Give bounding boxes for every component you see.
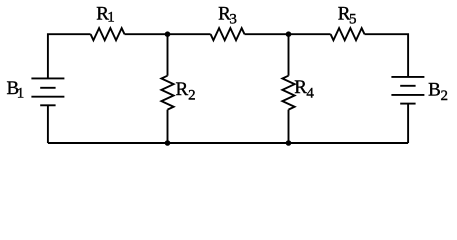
resistor R3 <box>211 28 245 40</box>
resistor R2 <box>161 76 173 110</box>
label R3 <box>218 3 237 27</box>
svg-text:1: 1 <box>17 86 25 102</box>
wire: node B down to R4 <box>288 34 290 75</box>
wire: left rail top (B1 + terminal up to top-left corner, across to R1) <box>48 34 91 78</box>
junction node A (top, R1/R2/R3) <box>165 31 171 37</box>
label R4 <box>294 77 314 101</box>
svg-text:B: B <box>428 80 441 101</box>
label B1 <box>7 78 25 102</box>
resistor R4 <box>282 76 294 110</box>
label R5 <box>338 3 357 27</box>
svg-text:R: R <box>294 77 307 98</box>
svg-text:2: 2 <box>188 88 196 104</box>
resistor R1 <box>91 28 125 40</box>
wire: R4 down to bottom rail node D <box>288 110 290 143</box>
wire: B2 - terminal down to bottom-right corner <box>407 104 409 143</box>
label R1 <box>96 3 115 25</box>
junction node C (bottom, under R2) <box>165 140 171 146</box>
junction node D (bottom, under R4) <box>286 140 292 146</box>
wire: B1 - terminal down to bottom-left corner <box>47 105 49 143</box>
svg-text:R: R <box>176 79 189 100</box>
wire: R5 to top-right corner down to B2 + terminal <box>365 34 409 77</box>
battery B2 <box>391 77 424 104</box>
wire: bottom rail left section <box>48 142 168 144</box>
label R2 <box>176 79 196 104</box>
wire: bottom rail right section <box>289 142 409 144</box>
svg-text:5: 5 <box>349 12 357 28</box>
svg-text:4: 4 <box>306 86 314 102</box>
svg-text:1: 1 <box>107 9 115 25</box>
wire: bottom rail middle section <box>168 142 289 144</box>
junction node B (top, R3/R4/R5) <box>286 31 292 37</box>
battery B1 <box>31 78 64 105</box>
label B2 <box>428 80 448 105</box>
wire: R3 to R5 through node B <box>245 33 331 35</box>
resistor R5 <box>331 28 365 40</box>
wire: node A down to R2 <box>167 34 169 75</box>
wire: R2 down to bottom rail node C <box>167 110 169 143</box>
svg-text:2: 2 <box>441 88 449 104</box>
wire: R1 to R3 through node A <box>125 33 211 35</box>
svg-text:3: 3 <box>229 12 237 28</box>
